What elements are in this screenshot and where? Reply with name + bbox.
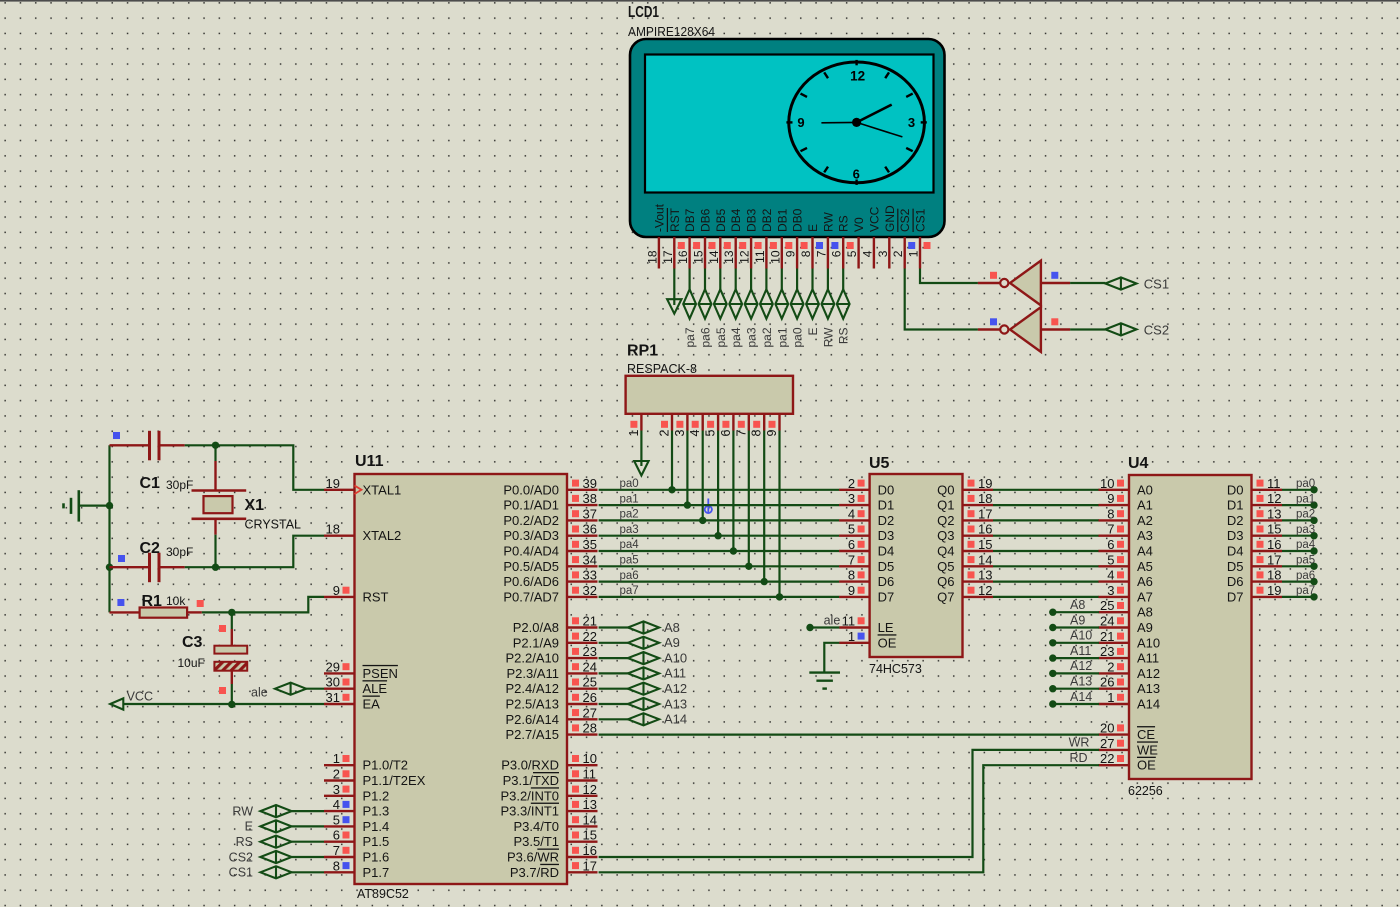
svg-text:24: 24: [583, 659, 597, 674]
terminal pa5 on LCD pin 14: [719, 269, 721, 290]
svg-text:P1.5: P1.5: [363, 834, 390, 849]
wire net A9 to U4: [1049, 624, 1056, 631]
svg-text:pa2: pa2: [760, 327, 774, 347]
svg-text:7: 7: [1107, 522, 1114, 537]
svg-text:38: 38: [583, 491, 597, 506]
svg-text:A9: A9: [664, 635, 680, 650]
svg-text:10uF: 10uF: [178, 656, 205, 670]
svg-text:A14: A14: [664, 712, 687, 727]
junction pa2: [699, 517, 706, 524]
svg-text:pa6: pa6: [699, 327, 713, 347]
U4 pin 5 A5: [1099, 565, 1130, 567]
U11 pin 9 RST: [324, 596, 355, 598]
svg-text:P0.6/AD6: P0.6/AD6: [503, 574, 559, 589]
svg-text:12: 12: [738, 250, 752, 264]
svg-text:DB4: DB4: [729, 208, 743, 232]
svg-text:12: 12: [978, 583, 992, 598]
terminal RS: [260, 836, 291, 848]
LCD pin 1 (CS1): [919, 237, 921, 269]
wire C2/X1 to XTAL2: [216, 536, 325, 568]
LCD pin 10 (DB1): [781, 237, 783, 269]
LCD pin 12 (DB3): [750, 237, 752, 269]
svg-text:P2.4/A12: P2.4/A12: [506, 681, 560, 696]
svg-text:P3.5/T1: P3.5/T1: [513, 834, 559, 849]
svg-text:P3.7/RD: P3.7/RD: [510, 865, 559, 880]
svg-text:A0: A0: [1137, 482, 1153, 497]
svg-text:pa0: pa0: [620, 478, 639, 490]
U11 pin 33 P0.6/AD6: [567, 580, 598, 582]
U4 pin 17 D5: [1252, 565, 1283, 567]
svg-text:A12: A12: [1070, 659, 1092, 673]
wire Q3 to U4 A3: [993, 535, 1099, 537]
svg-text:pa3: pa3: [745, 327, 759, 347]
svg-text:CE: CE: [1137, 727, 1155, 742]
svg-text:A11: A11: [664, 666, 686, 681]
svg-text:29: 29: [326, 659, 340, 674]
svg-text:Q3: Q3: [937, 528, 954, 543]
LCD pin 3 (GND): [888, 237, 890, 269]
svg-text:8: 8: [799, 250, 813, 257]
svg-text:4: 4: [333, 797, 340, 812]
svg-text:EA: EA: [363, 697, 381, 712]
svg-text:1: 1: [627, 429, 641, 436]
svg-text:P2.1/A9: P2.1/A9: [513, 635, 559, 650]
terminal (power arrow) on LCD pin 17: [673, 269, 675, 306]
svg-text:3: 3: [876, 250, 890, 257]
U4 pin 19 D7: [1252, 596, 1283, 598]
svg-text:9: 9: [784, 250, 798, 257]
U11 pin 28 P2.7/A15: [567, 733, 598, 735]
svg-text:AMPIRE128X64: AMPIRE128X64: [628, 25, 715, 39]
svg-text:pa5: pa5: [714, 327, 728, 347]
U5 pin 7 D5: [839, 565, 870, 567]
wire C1/X1 to XTAL1: [216, 445, 325, 490]
wire RP1 pin 2 to P0.0 net: [671, 431, 673, 490]
svg-text:CRYSTAL: CRYSTAL: [245, 518, 302, 532]
wire Q2 to U4 A2: [993, 519, 1099, 521]
svg-text:5: 5: [1107, 552, 1114, 567]
wire R1 to RST: [232, 597, 324, 613]
wire CS2 to U11: [292, 856, 324, 858]
wire P0.6/AD6 net (pa6): [599, 580, 840, 582]
svg-text:RESPACK-8: RESPACK-8: [627, 362, 697, 376]
wire P0.0/AD0 net (pa0): [599, 489, 840, 491]
svg-text:1: 1: [1107, 690, 1114, 705]
wire P2.4 to A12 terminal: [599, 688, 629, 690]
wire net A8 to U4: [1049, 609, 1056, 616]
svg-text:pa7: pa7: [683, 327, 697, 347]
terminal pa0 on LCD pin 9: [796, 269, 798, 290]
U11 pin 27 P2.6/A14: [567, 718, 598, 720]
svg-text:20: 20: [1100, 721, 1114, 736]
wire left rail vertical: [108, 445, 110, 612]
U5 pin 13 Q6: [963, 580, 994, 582]
svg-text:P1.3: P1.3: [363, 804, 390, 819]
U11 pin 39 P0.0/AD0: [567, 489, 598, 491]
U11 pin 8 P1.7: [324, 871, 355, 873]
svg-text:21: 21: [1100, 629, 1114, 644]
wire net A14 to U4: [1049, 700, 1056, 707]
svg-text:D1: D1: [878, 498, 895, 513]
svg-text:pa3: pa3: [1296, 524, 1315, 536]
junction pa5: [745, 563, 752, 570]
svg-text:4: 4: [1107, 568, 1114, 583]
svg-text:3: 3: [673, 429, 687, 436]
wire RS to U11: [292, 841, 324, 843]
svg-text:P2.6/A14: P2.6/A14: [506, 712, 560, 727]
U11 pin 22 P2.1/A9: [567, 642, 598, 644]
svg-text:26: 26: [1100, 675, 1114, 690]
svg-text:pa2: pa2: [1296, 509, 1315, 521]
IC U4 body: [1129, 475, 1252, 779]
svg-text:P1.7: P1.7: [363, 865, 390, 880]
wire P0.5/AD5 net (pa5): [599, 565, 840, 567]
terminal RS on LCD pin 6: [842, 269, 844, 290]
LCD pin 6 (RS): [842, 237, 844, 269]
svg-text:18: 18: [326, 522, 340, 537]
U5 pin 2 D0: [839, 489, 870, 491]
svg-text:A13: A13: [1137, 681, 1160, 696]
svg-text:A12: A12: [664, 681, 687, 696]
svg-text:P3.0/RXD: P3.0/RXD: [501, 758, 559, 773]
svg-text:18: 18: [978, 491, 992, 506]
LCD pin 2 (CS2): [904, 237, 906, 269]
svg-text:GND: GND: [883, 205, 897, 232]
svg-text:23: 23: [1100, 644, 1114, 659]
svg-text:DB1: DB1: [775, 208, 789, 232]
terminal A13: [628, 698, 659, 710]
wire ale net to U5 LE: [806, 624, 813, 631]
svg-text:RW: RW: [232, 804, 253, 818]
U11 pin 7 P1.6: [324, 856, 355, 858]
U11 pin 14 P3.4/T0: [567, 825, 598, 827]
svg-text:3: 3: [333, 782, 340, 797]
svg-text:31: 31: [326, 690, 340, 705]
svg-text:CS2: CS2: [1144, 322, 1169, 337]
svg-text:CS2: CS2: [229, 850, 253, 864]
U11 pin 36 P0.3/AD3: [567, 535, 598, 537]
svg-text:8: 8: [848, 568, 855, 583]
svg-text:E: E: [806, 328, 820, 336]
svg-text:15: 15: [692, 250, 706, 264]
U11 pin 18 XTAL2: [324, 535, 355, 537]
U5 pin 4 D2: [839, 519, 870, 521]
svg-text:7: 7: [734, 429, 748, 436]
svg-text:28: 28: [583, 721, 597, 736]
LCD pin 15 (DB6): [704, 237, 706, 269]
LCD screen: [645, 55, 934, 193]
U4 pin 10 A0: [1099, 489, 1130, 491]
U11 pin 5 P1.4: [324, 825, 355, 827]
wire P0.4/AD4 net (pa4): [599, 550, 840, 552]
LCD pin 18 (-Vout): [658, 237, 660, 269]
junction pa7: [776, 593, 783, 600]
wire U4 D7 to pa7 label: [1282, 596, 1314, 598]
svg-text:D2: D2: [878, 513, 895, 528]
svg-text:V0: V0: [852, 217, 866, 232]
svg-text:15: 15: [1267, 522, 1281, 537]
svg-text:AT89C52: AT89C52: [357, 887, 409, 901]
wire RP1 pin 9 to P0.7 net: [778, 431, 780, 597]
terminal CS1: [260, 866, 291, 878]
U5 pin 12 Q7: [963, 596, 994, 598]
svg-text:A4: A4: [1137, 544, 1153, 559]
U4 pin 26 A13: [1099, 688, 1130, 690]
svg-text:10: 10: [768, 250, 782, 264]
svg-text:D2: D2: [1227, 513, 1244, 528]
LCD LCD1 body: [630, 39, 945, 237]
inverter U2A: [1010, 261, 1041, 306]
svg-text:Q2: Q2: [937, 513, 954, 528]
U4 pin 6 A4: [1099, 550, 1130, 552]
IC U5 body: [870, 474, 963, 657]
wire P2.6 to A14 terminal: [599, 718, 629, 720]
U11 pin 34 P0.5/AD5: [567, 565, 598, 567]
svg-text:DB3: DB3: [745, 208, 759, 232]
svg-text:14: 14: [707, 250, 721, 264]
U11 pin 11 P3.1/TXD: [567, 779, 598, 781]
svg-text:A11: A11: [1137, 651, 1159, 666]
wire Q7 to U4 A7: [993, 596, 1099, 598]
svg-text:A12: A12: [1137, 666, 1160, 681]
wire U4 D6 to pa6 label: [1282, 580, 1314, 582]
svg-text:8: 8: [333, 858, 340, 873]
svg-text:pa1: pa1: [1296, 493, 1315, 505]
wire RP1 pin 3 to P0.1 net: [686, 431, 688, 506]
svg-text:5: 5: [845, 250, 859, 257]
svg-text:14: 14: [978, 552, 992, 567]
crystal X1: [214, 445, 216, 461]
terminal pa7 on LCD pin 16: [688, 269, 690, 290]
U11 pin 37 P0.2/AD2: [567, 519, 598, 521]
svg-text:30pF: 30pF: [166, 478, 193, 492]
junction C1 right: [212, 442, 219, 449]
svg-text:17: 17: [583, 858, 597, 873]
svg-text:P0.3/AD3: P0.3/AD3: [503, 528, 559, 543]
wire ale to ALE: [306, 688, 324, 690]
svg-text:22: 22: [583, 629, 597, 644]
svg-text:D7: D7: [1227, 589, 1244, 604]
svg-text:Q6: Q6: [937, 574, 954, 589]
svg-text:2: 2: [848, 476, 855, 491]
svg-text:OE: OE: [1137, 758, 1156, 773]
wire net A13 to U4: [1049, 685, 1056, 692]
U11 pin 38 P0.1/AD1: [567, 504, 598, 506]
svg-text:A10: A10: [1070, 629, 1092, 643]
svg-text:3: 3: [848, 491, 855, 506]
resistor pack RP1 body: [626, 376, 793, 414]
svg-text:11: 11: [842, 614, 856, 629]
RP1 pin 6: [732, 414, 734, 431]
svg-text:39: 39: [583, 476, 597, 491]
svg-text:1: 1: [333, 751, 340, 766]
terminal pa3 on LCD pin 12: [750, 269, 752, 290]
svg-text:A14: A14: [1070, 690, 1092, 704]
resistor R1: [110, 611, 140, 613]
U4 pin 12 D1: [1252, 504, 1283, 506]
U11 pin 12 P3.2/INT0: [567, 795, 598, 797]
svg-text:D5: D5: [878, 559, 895, 574]
svg-text:P1.6: P1.6: [363, 850, 390, 865]
svg-text:18: 18: [1267, 568, 1281, 583]
svg-text:P0.1/AD1: P0.1/AD1: [503, 498, 559, 513]
terminal A10: [628, 652, 659, 664]
wire U4 D0 to pa0 label: [1282, 489, 1314, 491]
svg-text:-Vout: -Vout: [652, 203, 666, 232]
svg-text:2: 2: [1107, 659, 1114, 674]
LCD pin 11 (DB2): [765, 237, 767, 269]
svg-text:P1.4: P1.4: [363, 819, 390, 834]
svg-text:A5: A5: [1137, 559, 1153, 574]
wire E to U11: [292, 825, 324, 827]
U4 pin 21 A10: [1099, 642, 1130, 644]
U5 pin 18 Q1: [963, 504, 994, 506]
wire inverter U2A out to CS1 terminal: [1070, 282, 1105, 284]
svg-text:74HC573: 74HC573: [869, 662, 922, 676]
U11 pin 13 P3.3/INT1: [567, 810, 598, 812]
svg-text:P2.0/A8: P2.0/A8: [513, 620, 559, 635]
wire CS1 to U11: [292, 871, 324, 873]
svg-text:RS: RS: [236, 835, 253, 849]
svg-text:P1.1/T2EX: P1.1/T2EX: [363, 773, 426, 788]
terminal (power arrow) on RP1 pin 1: [640, 431, 642, 467]
svg-text:pa5: pa5: [620, 555, 639, 567]
U11 pin 10 P3.0/RXD: [567, 764, 598, 766]
U5 pin 3 D1: [839, 504, 870, 506]
U5 pin 17 Q2: [963, 519, 994, 521]
svg-text:Q1: Q1: [937, 498, 954, 513]
U4 pin 7 A3: [1099, 535, 1130, 537]
U5 pin 19 Q0: [963, 489, 994, 491]
wire net A11 to U4: [1049, 654, 1056, 661]
junction pa3: [714, 532, 721, 539]
U11 pin 19 XTAL1: [324, 489, 355, 491]
svg-text:pa6: pa6: [1296, 570, 1315, 582]
junction C2/X1: [212, 564, 219, 571]
svg-text:A8: A8: [1070, 598, 1085, 612]
svg-text:30: 30: [326, 675, 340, 690]
svg-text:D3: D3: [878, 528, 895, 543]
U11 pin 15 P3.5/T1: [567, 841, 598, 843]
svg-text:34: 34: [583, 552, 597, 567]
junction C3/VCC rail: [228, 701, 235, 708]
svg-text:RD: RD: [1070, 751, 1088, 765]
svg-text:P3.2/INT0: P3.2/INT0: [500, 788, 559, 803]
U4 pin 20 CE: [1099, 733, 1130, 735]
clock face: [789, 62, 925, 183]
terminal A8: [628, 621, 659, 633]
svg-text:U5: U5: [869, 455, 890, 472]
svg-text:D5: D5: [1227, 559, 1244, 574]
LCD pin 7 (RW): [827, 237, 829, 269]
svg-text:A2: A2: [1137, 513, 1153, 528]
svg-text:33: 33: [583, 568, 597, 583]
svg-text:P0.0/AD0: P0.0/AD0: [503, 482, 559, 497]
svg-text:2: 2: [658, 429, 672, 436]
svg-text:16: 16: [1267, 537, 1281, 552]
svg-text:12: 12: [583, 782, 597, 797]
U4 pin 25 A8: [1099, 611, 1130, 613]
svg-text:30pF: 30pF: [166, 545, 193, 559]
svg-text:2: 2: [333, 767, 340, 782]
svg-text:pa7: pa7: [1296, 585, 1315, 597]
clock hands: [821, 121, 856, 123]
wire U4 D1 to pa1 label: [1282, 504, 1314, 506]
svg-text:16: 16: [978, 522, 992, 537]
U4 pin 24 A9: [1099, 626, 1130, 628]
svg-text:D3: D3: [1227, 528, 1244, 543]
svg-text:18: 18: [645, 250, 659, 264]
svg-text:R1: R1: [142, 593, 163, 610]
svg-text:32: 32: [583, 583, 597, 598]
svg-text:D6: D6: [878, 574, 895, 589]
wire LCD pin1 to inverter U2A input: [920, 269, 978, 284]
U4 pin 16 D4: [1252, 550, 1283, 552]
terminal E: [260, 820, 291, 832]
U4 pin 2 A12: [1099, 672, 1130, 674]
U11 pin 3 P1.2: [324, 795, 355, 797]
svg-text:P0.7/AD7: P0.7/AD7: [503, 589, 559, 604]
svg-text:5: 5: [848, 522, 855, 537]
wire P2.7/A15 to U4 CE: [599, 733, 1099, 735]
wire P0.3/AD3 net (pa3): [599, 535, 840, 537]
wire net A10 to U4: [1049, 639, 1056, 646]
U4 pin 15 D3: [1252, 535, 1283, 537]
svg-text:37: 37: [583, 506, 597, 521]
svg-text:7: 7: [333, 843, 340, 858]
svg-text:pa6: pa6: [620, 570, 639, 582]
svg-text:ale: ale: [824, 613, 841, 627]
svg-text:6: 6: [719, 429, 733, 436]
U11 pin 2 P1.1/T2EX: [324, 779, 355, 781]
svg-text:15: 15: [583, 828, 597, 843]
probe marker on pa1: [705, 506, 712, 513]
svg-text:P0.5/AD5: P0.5/AD5: [503, 559, 559, 574]
svg-text:Q5: Q5: [937, 559, 954, 574]
svg-text:C3: C3: [182, 634, 203, 651]
svg-text:27: 27: [1100, 736, 1114, 751]
svg-text:11: 11: [583, 767, 597, 782]
svg-text:D7: D7: [878, 589, 895, 604]
svg-text:62256: 62256: [1128, 784, 1163, 798]
wire P0.1/AD1 net (pa1): [599, 504, 840, 506]
terminal A12: [628, 683, 659, 695]
svg-text:3: 3: [1107, 583, 1114, 598]
IC U11 body: [355, 474, 568, 884]
wire U4 D4 to pa4 label: [1282, 550, 1314, 552]
svg-text:A3: A3: [1137, 528, 1153, 543]
svg-text:9: 9: [333, 583, 340, 598]
ground symbol (left): [78, 490, 81, 521]
terminal pa1 on LCD pin 10: [781, 269, 783, 290]
U5 pin 15 Q4: [963, 550, 994, 552]
VCC terminal arrow: [110, 698, 123, 709]
ground symbol (U5 OE): [809, 671, 840, 673]
capacitor C3 (electrolytic): [231, 612, 233, 629]
svg-text:RST: RST: [668, 207, 682, 232]
svg-text:X1: X1: [245, 497, 265, 514]
U4 pin 13 D2: [1252, 519, 1283, 521]
svg-text:ALE: ALE: [363, 681, 388, 696]
svg-text:7: 7: [848, 552, 855, 567]
RP1 pin 8: [763, 414, 765, 431]
LCD pin 16 (DB7): [688, 237, 690, 269]
wire P2.0 to A8 terminal: [599, 626, 629, 628]
svg-text:12: 12: [1267, 491, 1281, 506]
svg-text:9: 9: [848, 583, 855, 598]
U11 pin 31 EA: [324, 703, 355, 705]
svg-text:DB2: DB2: [760, 208, 774, 232]
